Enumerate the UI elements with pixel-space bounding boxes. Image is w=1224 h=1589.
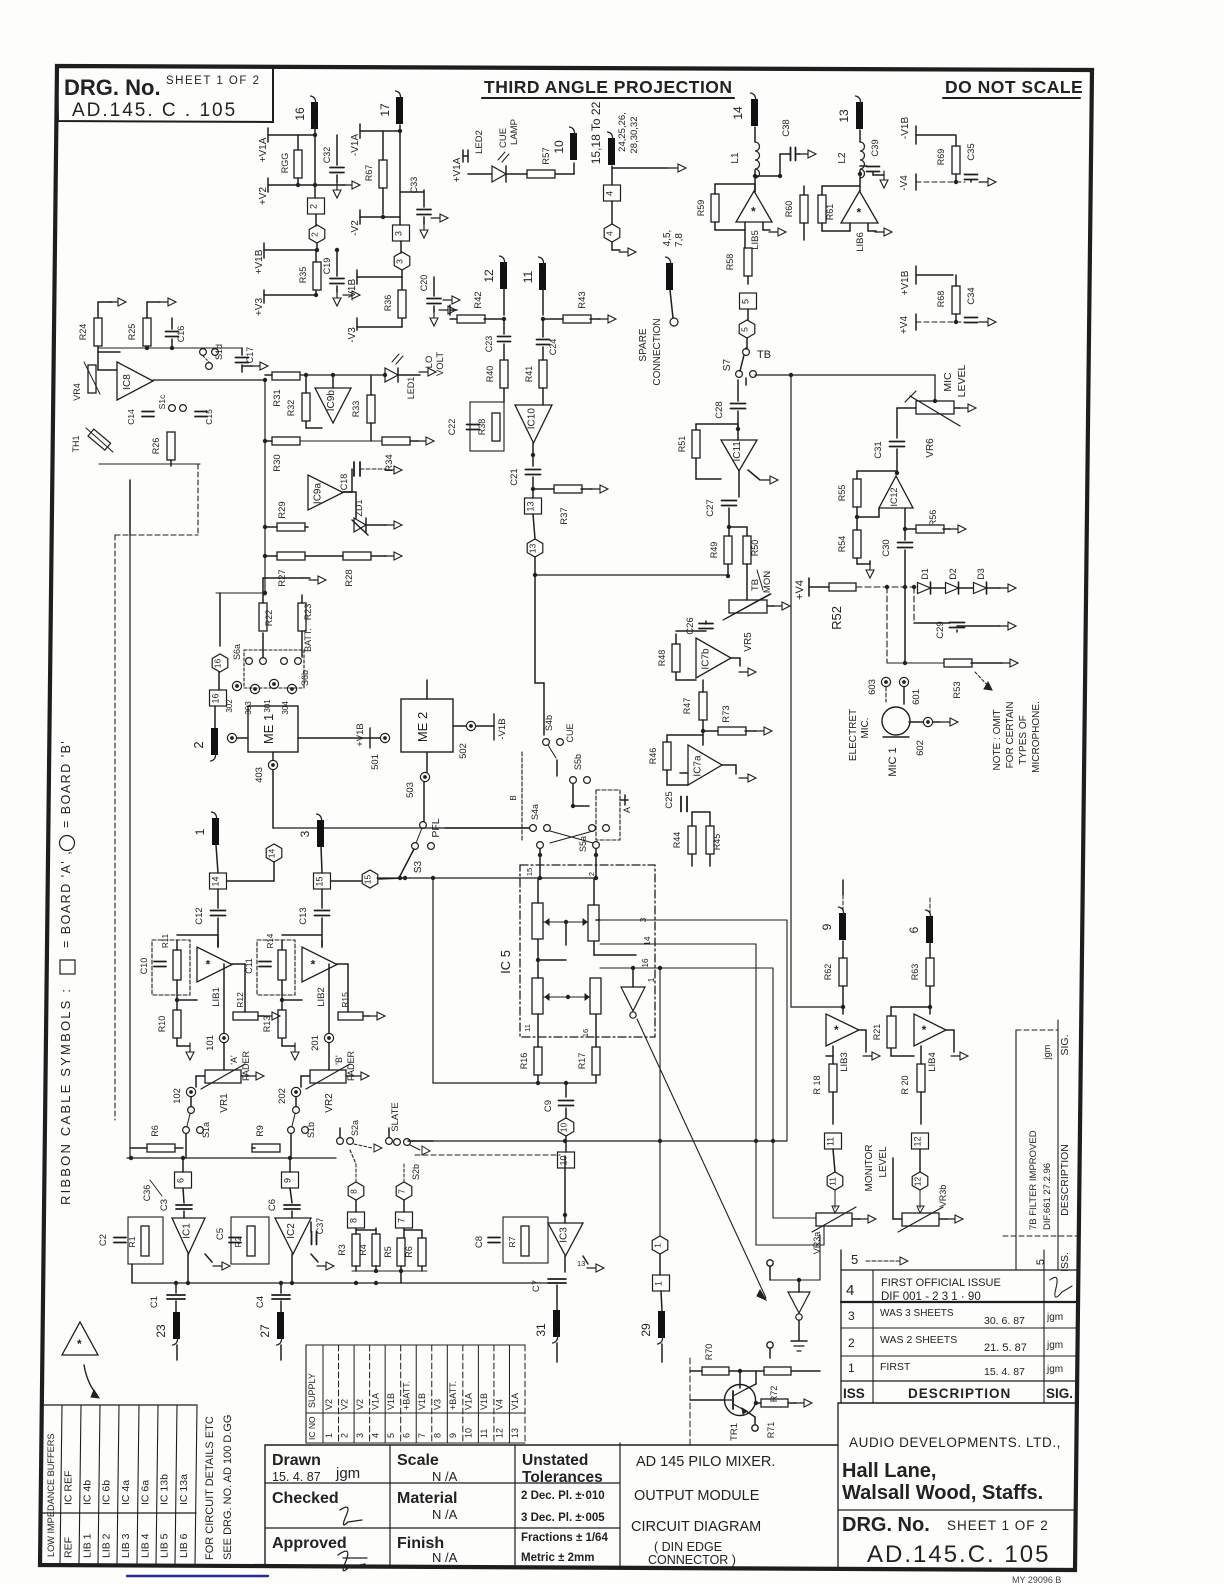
svg-text:R33: R33 (351, 401, 361, 418)
svg-text:6: 6 (401, 1433, 411, 1438)
svg-text:S2a: S2a (350, 1120, 360, 1136)
svg-text:FOR CERTAIN: FOR CERTAIN (1005, 702, 1016, 769)
svg-text:C3: C3 (159, 1199, 170, 1211)
svg-text:R55: R55 (837, 485, 847, 502)
svg-text:7: 7 (417, 1433, 427, 1438)
svg-text:IC3: IC3 (559, 1227, 570, 1243)
svg-text:8: 8 (349, 1218, 359, 1223)
svg-text:1: 1 (193, 828, 207, 835)
svg-text:C6: C6 (267, 1199, 278, 1211)
svg-text:LIB 2: LIB 2 (101, 1533, 113, 1558)
svg-text:R51: R51 (677, 436, 687, 453)
svg-text:7: 7 (397, 1189, 407, 1194)
svg-text:R1: R1 (127, 1236, 137, 1247)
svg-text:R11: R11 (161, 933, 170, 948)
svg-text:DRG. No.: DRG. No. (64, 75, 161, 100)
svg-text:= BOARD 'A' ,: = BOARD 'A' , (59, 850, 73, 948)
svg-text:*: * (922, 1023, 927, 1037)
svg-text:-V1B: -V1B (900, 117, 911, 140)
svg-text:V2: V2 (339, 1399, 349, 1410)
svg-text:L2: L2 (837, 152, 848, 164)
svg-text:R25: R25 (127, 324, 137, 341)
svg-text:R59: R59 (696, 200, 706, 217)
svg-text:7: 7 (397, 1218, 407, 1223)
svg-text:AD.145. C . 105: AD.145. C . 105 (72, 100, 237, 121)
svg-text:1: 1 (654, 1281, 664, 1286)
svg-text:IC9a: IC9a (313, 483, 324, 505)
svg-text:DO NOT SCALE: DO NOT SCALE (945, 77, 1083, 97)
svg-text:C10: C10 (139, 958, 149, 975)
svg-text:V2: V2 (324, 1399, 334, 1410)
svg-text:R7: R7 (507, 1236, 517, 1247)
svg-text:IC7b: IC7b (701, 648, 712, 670)
svg-text:-V1B: -V1B (497, 718, 508, 739)
svg-text:15,18 To 22: 15,18 To 22 (589, 101, 603, 164)
svg-text:+BATT.: +BATT. (448, 1381, 458, 1410)
svg-text:8: 8 (433, 1433, 443, 1438)
svg-text:DIF 001 - 2 3 1 · 90: DIF 001 - 2 3 1 · 90 (881, 1291, 981, 1303)
svg-text:C20: C20 (419, 275, 429, 292)
svg-text:R53: R53 (952, 681, 963, 698)
svg-text:R52: R52 (829, 606, 844, 630)
svg-text:R12: R12 (235, 992, 245, 1008)
svg-text:304: 304 (281, 701, 290, 715)
svg-text:LAMP: LAMP (509, 119, 520, 145)
svg-text:502: 502 (458, 743, 469, 759)
svg-text:1: 1 (647, 977, 656, 982)
svg-text:14: 14 (267, 849, 277, 859)
svg-text:jgm: jgm (335, 1465, 360, 1482)
svg-text:C30: C30 (881, 539, 892, 556)
svg-text:FIRST OFFICIAL ISSUE: FIRST OFFICIAL ISSUE (881, 1277, 1001, 1289)
svg-text:2 Dec. Pl. ±·010: 2 Dec. Pl. ±·010 (521, 1490, 605, 1502)
svg-text:R26: R26 (151, 438, 161, 455)
svg-text:R44: R44 (672, 832, 682, 849)
svg-text:SHEET 1 OF 2: SHEET 1 OF 2 (947, 1518, 1049, 1533)
svg-text:14: 14 (731, 106, 745, 120)
svg-text:C34: C34 (966, 287, 977, 304)
svg-text:TH1: TH1 (71, 435, 81, 452)
svg-text:C29: C29 (935, 621, 946, 638)
svg-text:S7: S7 (722, 358, 733, 371)
svg-text:V1A: V1A (510, 1393, 520, 1410)
svg-text:C22: C22 (447, 419, 457, 436)
svg-text:Scale: Scale (397, 1452, 439, 1469)
svg-text:LEVEL: LEVEL (878, 1146, 889, 1178)
svg-text:601: 601 (911, 689, 922, 705)
svg-text:VR5: VR5 (743, 632, 754, 652)
svg-text:S4a: S4a (530, 804, 540, 820)
svg-text:V1B: V1B (386, 1393, 396, 1410)
svg-text:C39: C39 (870, 139, 881, 156)
svg-text:S1b: S1b (306, 1122, 316, 1138)
svg-text:501: 501 (370, 754, 381, 770)
svg-text:AD 145 PILO MIXER.: AD 145 PILO MIXER. (636, 1454, 775, 1470)
svg-text:10: 10 (464, 1428, 474, 1438)
svg-text:N /A: N /A (432, 1469, 458, 1484)
svg-text:*: * (311, 958, 316, 972)
svg-text:Drawn: Drawn (272, 1452, 321, 1469)
svg-text:C7: C7 (531, 1280, 542, 1292)
svg-text:R38: R38 (477, 419, 487, 436)
svg-text:SPARE: SPARE (638, 328, 649, 361)
svg-text:30. 6. 87: 30. 6. 87 (984, 1315, 1025, 1327)
svg-text:R24: R24 (78, 324, 88, 341)
svg-text:1: 1 (848, 1361, 855, 1375)
svg-text:'A': 'A' (229, 1055, 239, 1065)
svg-text:10: 10 (559, 1123, 569, 1133)
svg-text:MONITOR: MONITOR (864, 1144, 875, 1191)
svg-text:S6a: S6a (232, 644, 242, 660)
svg-text:R41: R41 (524, 366, 534, 383)
svg-text:3: 3 (848, 1309, 855, 1323)
svg-text:*: * (77, 1337, 82, 1351)
svg-text:OUTPUT MODULE: OUTPUT MODULE (634, 1488, 760, 1504)
svg-text:C1: C1 (149, 1296, 160, 1308)
svg-text:11: 11 (523, 1024, 532, 1032)
svg-text:C13: C13 (298, 907, 309, 924)
svg-text:LIB2: LIB2 (316, 987, 327, 1007)
svg-text:24,25,26,: 24,25,26, (617, 112, 628, 152)
svg-text:15: 15 (315, 876, 325, 886)
svg-text:2: 2 (848, 1336, 855, 1350)
svg-text:R23: R23 (303, 604, 313, 621)
svg-text:C27: C27 (705, 499, 716, 516)
svg-text:D3: D3 (976, 568, 986, 580)
svg-text:Checked: Checked (272, 1490, 339, 1507)
svg-text:C38: C38 (781, 119, 792, 136)
svg-text:Tolerances: Tolerances (522, 1469, 603, 1486)
svg-text:*: * (834, 1023, 839, 1037)
svg-text:IC2: IC2 (286, 1223, 297, 1239)
svg-text:Walsall Wood, Staffs.: Walsall Wood, Staffs. (842, 1482, 1043, 1504)
svg-text:21. 5. 87: 21. 5. 87 (984, 1342, 1027, 1354)
svg-text:R9: R9 (255, 1125, 265, 1137)
svg-text:102: 102 (172, 1088, 183, 1104)
svg-text:4: 4 (846, 1282, 854, 1299)
svg-text:27: 27 (258, 1324, 272, 1338)
svg-text:C19: C19 (322, 258, 332, 275)
svg-text:R47: R47 (682, 698, 692, 715)
svg-text:R31: R31 (272, 389, 283, 406)
svg-text:V1B: V1B (479, 1393, 489, 1410)
svg-text:L1: L1 (730, 152, 741, 164)
svg-text:R70: R70 (704, 1344, 714, 1361)
svg-text:IC 13b: IC 13b (159, 1474, 171, 1505)
svg-text:R6: R6 (404, 1246, 414, 1258)
svg-text:14: 14 (211, 876, 221, 886)
svg-text:MON: MON (762, 571, 773, 593)
svg-text:LIB 6: LIB 6 (178, 1533, 190, 1558)
svg-text:C15: C15 (204, 409, 214, 425)
svg-text:R73: R73 (721, 705, 732, 722)
svg-text:R 20: R 20 (900, 1075, 910, 1094)
svg-text:R45: R45 (712, 834, 722, 851)
svg-text:11: 11 (828, 1177, 838, 1186)
svg-text:9: 9 (448, 1433, 458, 1438)
svg-text:DESCRIPTION: DESCRIPTION (908, 1386, 1011, 1401)
svg-text:V2: V2 (355, 1399, 365, 1410)
svg-text:602: 602 (915, 740, 926, 756)
svg-text:13: 13 (510, 1428, 520, 1438)
svg-text:C18: C18 (339, 474, 349, 491)
svg-text:3: 3 (298, 830, 312, 837)
svg-text:S4b: S4b (544, 715, 554, 731)
svg-text:15. 4. 87: 15. 4. 87 (272, 1470, 321, 1484)
svg-text:28,30,32: 28,30,32 (629, 117, 640, 154)
svg-text:S1c: S1c (157, 394, 167, 409)
svg-text:7B FILTER IMPROVED: 7B FILTER IMPROVED (1028, 1130, 1039, 1230)
svg-text:CONNECTION: CONNECTION (652, 318, 663, 385)
svg-text:+V4: +V4 (794, 580, 806, 600)
svg-text:ISS: ISS (843, 1386, 865, 1401)
svg-text:N /A: N /A (432, 1550, 458, 1565)
svg-text:VOLT: VOLT (435, 352, 446, 376)
svg-text:4: 4 (370, 1433, 380, 1438)
svg-text:R57: R57 (541, 147, 552, 164)
svg-text:202: 202 (277, 1088, 288, 1104)
svg-text:LIB 1: LIB 1 (82, 1533, 94, 1558)
svg-text:LEVEL: LEVEL (956, 365, 968, 398)
svg-text:IC12: IC12 (889, 487, 899, 506)
svg-text:13: 13 (577, 1259, 585, 1268)
svg-text:Unstated: Unstated (522, 1452, 588, 1469)
svg-text:Hall Lane,: Hall Lane, (842, 1460, 936, 1482)
svg-text:R28: R28 (344, 569, 355, 586)
svg-text:R67: R67 (364, 165, 374, 182)
svg-text:IC8: IC8 (122, 374, 133, 390)
svg-text:WAS 3 SHEETS: WAS 3 SHEETS (880, 1308, 954, 1319)
svg-text:LED2: LED2 (474, 130, 485, 154)
svg-text:jgm: jgm (1046, 1364, 1063, 1375)
svg-text:ELECTRET: ELECTRET (848, 709, 859, 761)
svg-text:Fractions ± 1/64: Fractions ± 1/64 (521, 1532, 608, 1544)
svg-text:R48: R48 (657, 650, 667, 667)
svg-text:5: 5 (851, 1252, 858, 1267)
svg-text:5: 5 (1035, 1259, 1047, 1265)
svg-text:R4: R4 (358, 1244, 368, 1256)
svg-text:LIB1: LIB1 (211, 987, 222, 1007)
svg-text:13: 13 (837, 109, 851, 123)
svg-text:R54: R54 (837, 536, 847, 553)
svg-text:TB: TB (750, 579, 761, 591)
svg-text:10: 10 (552, 140, 566, 154)
svg-text:THIRD ANGLE PROJECTION: THIRD ANGLE PROJECTION (484, 77, 733, 97)
svg-text:R15: R15 (340, 992, 350, 1008)
svg-text:C36: C36 (142, 1185, 152, 1202)
svg-text:V1A: V1A (370, 1393, 380, 1410)
svg-text:WAS 2 SHEETS: WAS 2 SHEETS (880, 1334, 957, 1346)
svg-text:16: 16 (213, 659, 223, 669)
svg-text:S5b: S5b (573, 754, 583, 770)
svg-text:302: 302 (225, 699, 234, 713)
svg-text:TYPES OF: TYPES OF (1018, 715, 1029, 764)
svg-text:13: 13 (528, 544, 538, 554)
svg-text:R49: R49 (709, 542, 719, 559)
svg-text:NOTE : OMIT: NOTE : OMIT (992, 709, 1003, 770)
svg-text:16: 16 (293, 107, 307, 121)
svg-text:LIB5: LIB5 (750, 230, 761, 250)
svg-text:AD.145.C. 105: AD.145.C. 105 (867, 1541, 1050, 1568)
svg-text:MICROPHONE.: MICROPHONE. (1031, 701, 1042, 773)
svg-text:= BOARD 'B': = BOARD 'B' (59, 740, 73, 828)
svg-text:Metric ± 2mm: Metric ± 2mm (521, 1552, 594, 1564)
svg-text:3: 3 (394, 231, 404, 236)
svg-text:B: B (509, 795, 518, 800)
svg-text:MY 29096 B: MY 29096 B (1012, 1575, 1061, 1584)
svg-text:R6: R6 (150, 1125, 160, 1137)
svg-text:VR4: VR4 (72, 383, 82, 401)
svg-text:SEE DRG. NO. AD 100 D.GG: SEE DRG. NO. AD 100 D.GG (222, 1415, 234, 1561)
svg-text:VR1: VR1 (219, 1093, 230, 1113)
svg-text:2: 2 (309, 204, 319, 209)
svg-text:17: 17 (378, 103, 392, 117)
svg-text:C21: C21 (509, 468, 520, 485)
svg-text:13: 13 (526, 501, 536, 511)
svg-text:VR3b: VR3b (938, 1185, 948, 1208)
svg-text:( DIN EDGE: ( DIN EDGE (654, 1540, 722, 1554)
svg-text:R50: R50 (750, 540, 760, 557)
svg-text:201: 201 (310, 1035, 321, 1051)
svg-text:8: 8 (349, 1189, 359, 1194)
svg-text:R72: R72 (769, 1386, 779, 1403)
svg-text:IC 5: IC 5 (498, 950, 513, 974)
svg-text:R32: R32 (286, 400, 296, 417)
svg-text:R71: R71 (766, 1422, 776, 1439)
svg-text:C8: C8 (474, 1236, 485, 1248)
svg-text:D2: D2 (948, 568, 958, 580)
svg-text:R21: R21 (872, 1024, 882, 1041)
svg-text:CUE: CUE (498, 128, 509, 148)
svg-text:R37: R37 (559, 507, 570, 524)
svg-text:R5: R5 (383, 1246, 393, 1258)
svg-text:S3: S3 (413, 860, 424, 873)
svg-text:LIB 5: LIB 5 (159, 1533, 171, 1558)
svg-text:16: 16 (641, 958, 650, 967)
svg-text:R22: R22 (264, 610, 274, 627)
svg-text:R42: R42 (473, 291, 484, 308)
svg-text:4,5,: 4,5, (662, 230, 673, 247)
svg-text:S1d: S1d (214, 344, 224, 360)
svg-text:R17: R17 (577, 1053, 587, 1070)
svg-text:RGG: RGG (280, 153, 290, 174)
svg-text:5: 5 (740, 327, 750, 332)
svg-text:SUPPLY: SUPPLY (307, 1373, 317, 1408)
svg-text:403: 403 (254, 767, 265, 783)
svg-text:C4: C4 (255, 1296, 266, 1308)
svg-text:C25: C25 (664, 791, 675, 808)
svg-text:503: 503 (405, 782, 416, 798)
svg-text:MIC 1: MIC 1 (887, 747, 899, 776)
svg-text:*: * (206, 958, 211, 972)
svg-text:LIB6: LIB6 (855, 232, 866, 252)
svg-text:12: 12 (482, 269, 496, 283)
svg-text:R10: R10 (157, 1016, 167, 1033)
svg-text:R16: R16 (519, 1053, 529, 1070)
svg-text:R3: R3 (337, 1244, 347, 1256)
svg-text:R14: R14 (266, 933, 275, 948)
svg-text:11: 11 (479, 1429, 489, 1438)
svg-text:R35: R35 (298, 267, 308, 284)
svg-text:2: 2 (339, 1433, 349, 1438)
svg-text:D1: D1 (920, 568, 930, 580)
svg-text:LIB 3: LIB 3 (120, 1533, 132, 1558)
svg-text:jgm: jgm (1042, 1045, 1052, 1061)
svg-text:-V4: -V4 (899, 175, 910, 191)
svg-text:6: 6 (907, 926, 921, 933)
svg-text:IC NO: IC NO (307, 1416, 317, 1440)
svg-text:C28: C28 (714, 401, 725, 418)
svg-text:29: 29 (639, 1323, 653, 1337)
svg-text:LED1: LED1 (406, 377, 416, 400)
svg-text:LO: LO (424, 356, 435, 369)
svg-text:R61: R61 (825, 204, 835, 221)
svg-text:C9: C9 (543, 1100, 554, 1112)
svg-text:ME 2: ME 2 (415, 712, 430, 742)
svg-text:C37: C37 (315, 1218, 325, 1235)
svg-text:2: 2 (191, 741, 206, 748)
svg-text:VR6: VR6 (925, 438, 936, 458)
svg-text:SIG.: SIG. (1059, 1034, 1071, 1055)
svg-text:IC 13a: IC 13a (178, 1474, 190, 1505)
svg-text:C16: C16 (176, 326, 186, 343)
svg-text:101: 101 (205, 1035, 216, 1051)
svg-text:CIRCUIT DIAGRAM: CIRCUIT DIAGRAM (631, 1519, 761, 1535)
svg-text:MIC: MIC (942, 372, 954, 392)
svg-text:15: 15 (525, 868, 534, 876)
svg-text:R60: R60 (784, 201, 794, 218)
svg-text:*: * (857, 205, 862, 219)
svg-text:C26: C26 (685, 617, 696, 634)
svg-text:3 Dec. Pl. ±·005: 3 Dec. Pl. ±·005 (521, 1512, 605, 1524)
svg-text:A: A (622, 807, 632, 813)
svg-text:CUE: CUE (565, 723, 575, 742)
svg-text:C2: C2 (98, 1234, 109, 1246)
svg-text:IC9b: IC9b (326, 390, 337, 412)
svg-text:PFL: PFL (430, 818, 442, 837)
svg-text:V1B: V1B (417, 1393, 427, 1410)
svg-text:R58: R58 (725, 254, 735, 271)
svg-text:23: 23 (154, 1324, 168, 1338)
svg-text:C23: C23 (484, 336, 494, 353)
svg-text:C17: C17 (245, 347, 255, 364)
svg-text:R56: R56 (928, 510, 938, 527)
svg-text:IC 6b: IC 6b (101, 1480, 113, 1505)
svg-text:4: 4 (605, 231, 615, 236)
svg-text:S5a: S5a (578, 836, 588, 852)
svg-text:IC 6a: IC 6a (140, 1480, 152, 1505)
svg-text:C31: C31 (873, 441, 884, 458)
svg-text:12: 12 (913, 1136, 923, 1146)
svg-text:4: 4 (605, 191, 615, 196)
svg-text:+BATT.: +BATT. (401, 1381, 411, 1410)
svg-text:3: 3 (355, 1433, 365, 1438)
svg-text:R43: R43 (577, 291, 588, 308)
svg-text:V4: V4 (495, 1399, 505, 1410)
svg-text:R36: R36 (383, 295, 393, 312)
svg-text:FIRST: FIRST (880, 1361, 911, 1373)
svg-text:MIC.: MIC. (860, 717, 871, 738)
svg-text:LOW IMPEDANCE BUFFERS: LOW IMPEDANCE BUFFERS (46, 1433, 56, 1557)
svg-text:IC7a: IC7a (692, 755, 703, 777)
svg-text:VR2: VR2 (324, 1093, 335, 1113)
svg-text:SHEET 1 OF 2: SHEET 1 OF 2 (166, 75, 260, 87)
svg-text:11: 11 (826, 1137, 836, 1146)
svg-text:16: 16 (211, 693, 221, 703)
svg-text:R 18: R 18 (812, 1075, 822, 1094)
svg-text:C14: C14 (126, 409, 136, 425)
svg-text:SLATE: SLATE (390, 1102, 401, 1131)
